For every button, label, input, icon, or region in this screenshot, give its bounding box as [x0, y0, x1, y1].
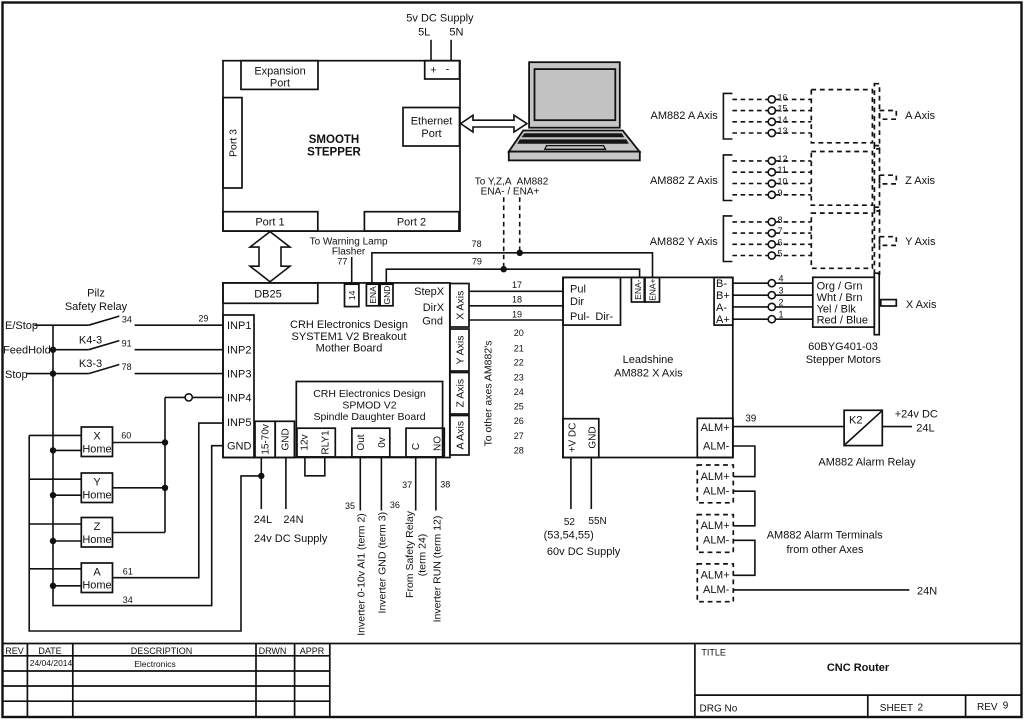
port 3 connector	[223, 98, 242, 188]
wire 24L from 15-70v	[260, 458, 262, 510]
svg-text:24L: 24L	[916, 423, 934, 435]
svg-text:20: 20	[514, 328, 524, 338]
svg-text:Port 3: Port 3	[227, 129, 239, 157]
svg-text:24N: 24N	[917, 586, 937, 598]
svg-text:NO: NO	[432, 436, 443, 451]
wire A Home lower pin	[53, 585, 81, 587]
svg-text:GND: GND	[382, 286, 392, 305]
wire Y Home output	[113, 487, 166, 489]
svg-text:78: 78	[472, 239, 482, 249]
dashed wire to other ENA+	[519, 197, 521, 253]
svg-text:SMOOTH: SMOOTH	[309, 134, 359, 146]
Z axis motor body dashed	[874, 146, 879, 211]
wire 5N to - terminal	[450, 40, 452, 61]
wire 19 Gnd to Pul-	[469, 319, 563, 321]
svg-text:Flasher: Flasher	[332, 246, 366, 257]
title block drawing title	[695, 644, 1022, 718]
X axis motor wires with terminals 4-1	[733, 274, 813, 323]
svg-text:10: 10	[778, 177, 788, 187]
svg-text:Z Axis: Z Axis	[454, 379, 466, 408]
svg-text:26: 26	[514, 416, 524, 426]
svg-text:ALM+: ALM+	[701, 520, 730, 532]
terminal block C NO	[406, 428, 444, 457]
bracket Z axis	[723, 155, 732, 201]
svg-text:ENA-: ENA-	[633, 279, 643, 299]
CRH SYSTEM1 V2 breakout mother board	[223, 283, 450, 458]
DB25 connector	[223, 283, 318, 303]
svg-text:ALM-: ALM-	[703, 535, 730, 547]
junction Y home lower	[50, 492, 56, 498]
svg-text:Port 1: Port 1	[255, 217, 284, 229]
svg-text:0v: 0v	[377, 437, 388, 448]
A Axis output connector	[450, 416, 469, 456]
wire X Home output	[113, 442, 166, 444]
svg-text:34: 34	[122, 314, 132, 324]
svg-text:Electronics: Electronics	[134, 659, 176, 669]
junction X home	[162, 439, 168, 445]
svg-text:Z: Z	[94, 521, 101, 533]
svg-text:Org / Grn: Org / Grn	[817, 280, 863, 292]
Y axis motor connection box dashed	[811, 213, 872, 268]
junction ENA+ bus	[517, 250, 523, 256]
junction X home lower	[50, 447, 56, 453]
svg-text:AM882 A Axis: AM882 A Axis	[651, 110, 719, 122]
svg-text:60BYG401-03: 60BYG401-03	[808, 341, 878, 353]
svg-text:From Safety Relay: From Safety Relay	[404, 510, 416, 598]
svg-text:RLY1: RLY1	[320, 430, 331, 455]
DB25 to Port1 double arrow	[250, 232, 290, 282]
svg-text:11: 11	[778, 165, 787, 175]
ethernet port connector	[403, 108, 460, 147]
svg-text:24/04/2014: 24/04/2014	[30, 658, 73, 668]
svg-text:8: 8	[778, 215, 783, 225]
svg-text:E/Stop: E/Stop	[5, 320, 38, 332]
svg-text:1: 1	[779, 310, 784, 320]
svg-text:78: 78	[122, 362, 132, 372]
label 60BYG401-03 Stepper Motors	[806, 341, 882, 366]
svg-text:Dir-: Dir-	[595, 311, 613, 323]
svg-text:15-70v: 15-70v	[261, 424, 272, 455]
svg-text:9: 9	[778, 188, 783, 198]
svg-text:Inverter RUN (term 12): Inverter RUN (term 12)	[431, 516, 443, 623]
alarm terminals axis 4 dashed	[697, 564, 733, 602]
svg-text:ENA+: ENA+	[648, 278, 658, 300]
wire axis3 ALM- to axis4 ALM+	[733, 540, 755, 575]
wire Z Home output	[113, 532, 166, 534]
svg-text:StepX: StepX	[414, 286, 445, 298]
svg-text:Red / Blue: Red / Blue	[817, 315, 868, 327]
Y Axis output connector	[450, 329, 469, 371]
svg-text:Safety Relay: Safety Relay	[65, 301, 128, 313]
junction 24L tap	[258, 473, 264, 479]
svg-text:35: 35	[345, 501, 355, 511]
wire 52 +V DC supply	[570, 458, 572, 510]
svg-text:CRH Electronics Design: CRH Electronics Design	[290, 319, 408, 331]
svg-text:77: 77	[337, 257, 347, 267]
svg-text:60v DC Supply: 60v DC Supply	[547, 546, 621, 558]
X axis motor wire colour box	[813, 277, 875, 327]
svg-text:Out: Out	[356, 434, 367, 450]
label StepX DirX Gnd	[414, 286, 445, 328]
svg-text:GND: GND	[280, 428, 291, 450]
Z Axis output connector	[450, 373, 469, 415]
svg-text:SHEET: SHEET	[880, 703, 913, 714]
svg-text:15: 15	[778, 104, 788, 114]
wire K2 to 24L	[882, 426, 912, 428]
svg-text:K4-3: K4-3	[79, 334, 102, 346]
svg-text:13: 13	[778, 126, 788, 136]
A axis motor shaft dashed	[880, 111, 897, 120]
svg-text:B+: B+	[716, 290, 730, 302]
svg-text:FeedHold: FeedHold	[3, 345, 51, 357]
svg-text:DATE: DATE	[38, 646, 61, 656]
svg-text:Home: Home	[82, 580, 111, 592]
svg-text:Home: Home	[82, 444, 111, 456]
svg-text:Leadshine: Leadshine	[623, 354, 674, 366]
dashed wire to other ENA-	[503, 197, 505, 269]
labels 20-28 other axes pins	[514, 328, 524, 456]
junction FeedHold	[50, 347, 56, 353]
label Pilz Safety Relay	[65, 288, 128, 314]
wire 78 ENA to ENA+	[372, 253, 653, 284]
wire 77 to terminal 14	[351, 257, 353, 284]
power terminal 15-70v	[255, 421, 275, 457]
wire home supply bus to 24L	[29, 435, 261, 631]
svg-text:-: -	[446, 64, 450, 76]
svg-text:Expansion: Expansion	[254, 66, 305, 78]
svg-text:DRWN: DRWN	[259, 646, 287, 656]
svg-text:16: 16	[778, 92, 788, 102]
svg-text:Yel / Blk: Yel / Blk	[817, 303, 857, 315]
svg-text:34: 34	[123, 595, 133, 605]
junction A home lower	[50, 583, 56, 589]
A axis motor body dashed	[874, 84, 879, 149]
svg-text:Y Axis: Y Axis	[454, 336, 466, 365]
svg-text:CRH Electronics Design: CRH Electronics Design	[313, 388, 426, 400]
terminal 14	[345, 284, 359, 306]
svg-text:24v DC Supply: 24v DC Supply	[254, 533, 328, 545]
A axis motor connection box dashed	[811, 90, 872, 143]
svg-text:ENA: ENA	[368, 286, 378, 304]
smooth stepper board U1	[223, 61, 460, 231]
svg-text:Y Axis: Y Axis	[905, 236, 936, 248]
svg-text:+24v DC: +24v DC	[895, 409, 938, 421]
input terminal column INP1-GND	[223, 315, 254, 458]
svg-text:7: 7	[778, 226, 783, 236]
svg-text:Inverter GND (term 3): Inverter GND (term 3)	[376, 512, 388, 614]
svg-text:C: C	[411, 443, 422, 450]
svg-text:2: 2	[918, 703, 924, 714]
svg-text:55N: 55N	[588, 516, 606, 527]
svg-text:25: 25	[514, 402, 524, 412]
svg-text:AM882 Alarm Terminals: AM882 Alarm Terminals	[767, 530, 883, 542]
svg-text:SYSTEM1 V2 Breakout: SYSTEM1 V2 Breakout	[292, 331, 407, 343]
motor output terminals B- B+ A- A+	[714, 277, 733, 326]
bracket Y axis	[723, 216, 732, 262]
svg-text:Pul: Pul	[570, 284, 586, 296]
ethernet to laptop double arrow	[461, 115, 527, 132]
wire A Home output to INP5	[113, 423, 224, 578]
wire NO to inverter RUN	[435, 457, 437, 511]
svg-text:6: 6	[778, 237, 783, 247]
junction ENA- bus	[501, 266, 507, 272]
svg-text:TITLE: TITLE	[701, 648, 726, 658]
svg-text:Pul-: Pul-	[570, 311, 590, 323]
wire Y Home upper pin	[29, 478, 81, 480]
Y axis motor body dashed	[874, 207, 879, 274]
wire 12v to RLY1 link	[305, 457, 325, 476]
svg-text:ALM+: ALM+	[701, 471, 730, 483]
A Home switch	[81, 563, 112, 593]
terminal GND	[380, 284, 393, 306]
svg-text:INP2: INP2	[227, 345, 251, 357]
svg-text:(53,54,55): (53,54,55)	[544, 530, 594, 542]
alarm terminals axis 3 dashed	[697, 515, 733, 553]
svg-text:14: 14	[778, 115, 788, 125]
Y Home switch	[81, 473, 112, 503]
svg-text:21: 21	[514, 343, 524, 353]
svg-text:2: 2	[779, 297, 784, 307]
Leadshine AM882 X axis drive U2	[563, 277, 733, 457]
svg-text:AM882 Alarm Relay: AM882 Alarm Relay	[818, 457, 916, 469]
svg-text:ALM+: ALM+	[701, 570, 730, 582]
Z axis motor connection box dashed	[811, 152, 872, 206]
svg-text:DirX: DirX	[423, 302, 445, 314]
A axis motor wires with terminals 16-13	[732, 92, 811, 136]
svg-text:24L: 24L	[254, 514, 272, 526]
wire safety common bus vertical	[53, 325, 223, 605]
svg-text:Home: Home	[82, 534, 111, 546]
CRH SPMOD V2 spindle daughter board	[296, 382, 442, 458]
svg-text:STEPPER: STEPPER	[307, 147, 361, 159]
svg-text:29: 29	[198, 313, 208, 323]
wire 39 ALM+ to relay K2	[733, 426, 844, 428]
svg-text:ALM-: ALM-	[703, 485, 730, 497]
power terminals +V DC GND	[563, 419, 599, 458]
svg-text:ALM-: ALM-	[703, 441, 730, 453]
svg-text:K3-3: K3-3	[79, 358, 102, 370]
svg-text:28: 28	[514, 446, 524, 456]
relay K2	[844, 410, 882, 445]
wire 0v to inverter GND	[380, 457, 382, 511]
svg-text:A: A	[93, 567, 101, 579]
X axis motor body	[874, 273, 879, 335]
svg-text:ENA- / ENA+: ENA- / ENA+	[481, 186, 540, 197]
svg-text:ALM-: ALM-	[703, 584, 730, 596]
svg-text:GND: GND	[587, 426, 598, 448]
svg-text:60: 60	[121, 431, 131, 441]
Z axis motor shaft dashed	[880, 175, 897, 184]
svg-text:INP1: INP1	[227, 320, 251, 332]
svg-text:REV: REV	[5, 646, 24, 656]
svg-text:A-: A-	[716, 302, 727, 314]
svg-text:X Axis: X Axis	[454, 291, 466, 320]
svg-text:12v: 12v	[300, 434, 311, 450]
svg-text:+V DC: +V DC	[567, 423, 578, 453]
svg-text:CNC Router: CNC Router	[827, 662, 890, 674]
svg-text:Dir: Dir	[570, 296, 584, 308]
X Home switch	[81, 427, 112, 457]
Z Home switch	[81, 518, 112, 548]
Y axis motor wires with terminals 8-5	[732, 215, 811, 259]
svg-text:Port 2: Port 2	[397, 217, 426, 229]
svg-text:22: 22	[514, 357, 524, 367]
5v supply terminal block + -	[425, 61, 460, 79]
svg-text:5L: 5L	[418, 27, 430, 39]
label To Warning Lamp Flasher	[310, 236, 388, 257]
wire Z Home upper pin	[29, 523, 81, 525]
switch K3-3 contact 78	[27, 365, 223, 374]
svg-text:3: 3	[779, 286, 784, 296]
junction Z home lower	[50, 538, 56, 544]
svg-text:17: 17	[512, 280, 522, 290]
svg-text:Ethernet: Ethernet	[411, 116, 453, 128]
svg-text:AM882 Y Axis: AM882 Y Axis	[650, 236, 719, 248]
svg-text:B-: B-	[716, 278, 727, 290]
svg-text:Gnd: Gnd	[422, 316, 443, 328]
drive signal terminals Pul Dir	[563, 277, 621, 325]
label To Y,Z,A AM882 ENA- / ENA+	[475, 176, 549, 197]
label AM882 Alarm Terminals from other Axes	[767, 530, 883, 556]
wire Z Home lower pin	[53, 540, 81, 542]
X Axis output connector	[450, 284, 469, 328]
wire 17 StepX to Pul	[469, 290, 563, 292]
svg-text:23: 23	[514, 372, 524, 382]
svg-text:Pilz: Pilz	[87, 288, 105, 300]
expansion port connector	[241, 61, 318, 90]
port 1 connector	[223, 212, 318, 231]
port 2 connector	[364, 212, 459, 231]
wire Y Home lower pin	[53, 494, 81, 496]
svg-text:Inverter 0-10v AI1 (term 2): Inverter 0-10v AI1 (term 2)	[355, 513, 367, 636]
svg-text:27: 27	[514, 431, 524, 441]
Z axis motor wires with terminals 12-9	[732, 154, 811, 199]
svg-text:AM882 Z Axis: AM882 Z Axis	[650, 175, 718, 187]
wire 18 DirX to Dir	[469, 305, 563, 307]
svg-text:GND: GND	[227, 441, 252, 453]
svg-text:38: 38	[440, 480, 450, 490]
svg-text:Port: Port	[421, 128, 441, 140]
wire axis2 ALM- to axis3 ALM+	[733, 491, 755, 526]
svg-text:Wht / Brn: Wht / Brn	[817, 292, 863, 304]
svg-text:Y: Y	[93, 477, 101, 489]
svg-text:INP3: INP3	[227, 369, 251, 381]
svg-text:14: 14	[347, 290, 357, 300]
svg-text:Port: Port	[270, 78, 290, 90]
terminal block Out 0v	[352, 428, 390, 457]
wire 24N from GND	[285, 458, 287, 510]
svg-text:from other Axes: from other Axes	[786, 544, 864, 556]
Y axis motor shaft dashed	[880, 237, 897, 246]
svg-text:DB25: DB25	[254, 289, 282, 301]
wire X Home upper pin	[29, 434, 81, 436]
wire axis4 ALM- to 24N	[733, 589, 909, 591]
svg-text:37: 37	[402, 480, 412, 490]
svg-text:52: 52	[564, 517, 576, 528]
switch K4-3 contact 91	[50, 341, 223, 350]
svg-text:K2: K2	[849, 415, 862, 427]
svg-text:Z Axis: Z Axis	[905, 175, 935, 187]
terminal ENA-	[631, 277, 644, 302]
svg-text:INP4: INP4	[227, 392, 251, 404]
wire INP4 with NC contact circle	[165, 394, 223, 533]
svg-text:APPR: APPR	[300, 646, 325, 656]
svg-text:36: 36	[390, 500, 400, 510]
svg-text:Mother Board: Mother Board	[316, 343, 383, 355]
svg-text:Stop: Stop	[5, 369, 28, 381]
terminal ENA	[366, 284, 378, 306]
svg-text:A Axis: A Axis	[454, 421, 466, 450]
svg-text:To other axes AM882's: To other axes AM882's	[482, 341, 494, 447]
svg-text:Spindle Daughter Board: Spindle Daughter Board	[313, 411, 425, 423]
svg-text:19: 19	[512, 310, 522, 320]
svg-text:Home: Home	[82, 490, 111, 502]
wire C from safety relay	[415, 457, 417, 511]
power terminal GND	[275, 421, 294, 457]
svg-text:ALM+: ALM+	[701, 422, 730, 434]
alarm terminals axis 2 dashed	[697, 465, 733, 503]
title block revision table	[2, 644, 1022, 718]
alarm terminals ALM+ ALM-	[697, 418, 733, 457]
terminal ENA+	[645, 277, 660, 302]
svg-text:X Axis: X Axis	[906, 299, 937, 311]
svg-text:DESCRIPTION: DESCRIPTION	[131, 646, 193, 656]
svg-text:REV: REV	[977, 702, 998, 713]
svg-text:Stepper Motors: Stepper Motors	[806, 354, 882, 366]
svg-text:5N: 5N	[449, 26, 463, 38]
wire Out to inverter AI1	[359, 457, 361, 511]
svg-text:A+: A+	[716, 314, 730, 326]
bracket A axis	[723, 93, 732, 139]
svg-text:+: +	[430, 65, 436, 77]
svg-text:18: 18	[512, 295, 522, 305]
X axis motor shaft	[881, 300, 897, 306]
svg-text:61: 61	[123, 566, 133, 576]
svg-text:39: 39	[745, 414, 757, 425]
laptop PC	[509, 62, 640, 160]
svg-text:79: 79	[472, 257, 482, 267]
wire 5L to + terminal	[430, 40, 432, 61]
wire ALM- to axis2 ALM+	[733, 446, 755, 477]
switch E/Stop contact 34	[34, 316, 223, 325]
svg-text:9: 9	[1003, 701, 1009, 712]
svg-text:INP5: INP5	[227, 417, 251, 429]
svg-text:91: 91	[122, 338, 132, 348]
wire 79 GND to ENA-	[386, 269, 639, 284]
svg-text:5: 5	[778, 249, 783, 259]
svg-text:SPMOD V2: SPMOD V2	[342, 400, 396, 412]
junction Y home	[162, 485, 168, 491]
svg-text:X: X	[93, 431, 101, 443]
svg-text:24N: 24N	[283, 514, 303, 526]
svg-text:4: 4	[779, 274, 784, 284]
wire 55N GND supply	[590, 458, 592, 510]
svg-text:12: 12	[778, 154, 788, 164]
junction Stop	[50, 370, 56, 376]
svg-text:DRG No: DRG No	[700, 704, 738, 715]
svg-text:5v DC Supply: 5v DC Supply	[406, 12, 474, 24]
terminal block 12v RLY1	[297, 428, 335, 457]
svg-text:A Axis: A Axis	[905, 110, 935, 122]
svg-text:(term 24): (term 24)	[417, 534, 429, 577]
svg-text:24: 24	[514, 387, 524, 397]
wire A Home upper pin	[29, 568, 81, 570]
svg-text:AM882 X Axis: AM882 X Axis	[614, 368, 683, 380]
wire X Home lower pin	[53, 449, 81, 451]
